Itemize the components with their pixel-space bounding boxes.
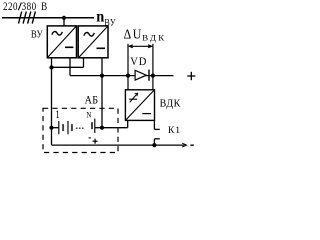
svg-text:ΔU: ΔU bbox=[124, 26, 143, 42]
svg-text:ВУ: ВУ bbox=[31, 29, 44, 41]
svg-text:К1: К1 bbox=[168, 125, 181, 136]
svg-text:ВДК: ВДК bbox=[142, 32, 166, 42]
svg-text:АБ: АБ bbox=[85, 94, 99, 107]
svg-text:ВУ: ВУ bbox=[104, 17, 116, 28]
svg-text:n: n bbox=[96, 8, 105, 26]
svg-text:N: N bbox=[86, 110, 91, 120]
svg-text:VD: VD bbox=[130, 55, 147, 68]
svg-text:380 В: 380 В bbox=[22, 1, 48, 13]
svg-text:ВДК: ВДК bbox=[160, 98, 181, 109]
svg-text:220: 220 bbox=[3, 1, 18, 13]
svg-text:1: 1 bbox=[55, 109, 59, 121]
